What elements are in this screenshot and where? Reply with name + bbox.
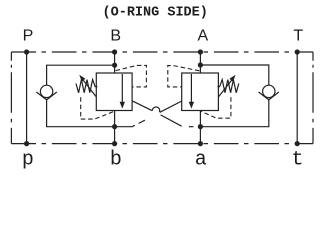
svg-text:T: T [293,28,303,45]
spring drain V2 to a (dashed) [200,97,231,118]
relief valve V1 body [96,73,132,111]
svg-text:P: P [23,28,34,45]
wire C2 to a-line [200,100,268,127]
junction dot b branch [112,124,117,129]
wire P-p vertical [26,52,28,144]
junction dot P top [24,49,29,54]
wire valve V2 down to a [199,111,201,144]
svg-text:A: A [197,28,208,45]
cross wire V1 outlet to a-line (upper leg) [132,101,152,111]
spring of V2 [217,80,238,93]
spring of V1 [76,80,97,93]
enclosure boundary right (dash-dot) [312,52,314,144]
svg-text:b: b [110,149,122,171]
junction dot A top [198,49,203,54]
junction dot b bottom [112,141,117,146]
cross wire dash near a junction [189,126,194,128]
svg-text:(O-RING SIDE): (O-RING SIDE) [103,5,208,20]
cross wire b-line to V2 inlet (stub from b junction) [115,125,135,126]
svg-text:p: p [22,149,34,171]
check valve C1 seat [36,92,56,100]
svg-text:B: B [110,28,121,45]
svg-text:a: a [195,149,207,171]
pilot line B to V1 (dashed) [116,65,147,87]
enclosure boundary bottom (dash-dot) [11,143,313,145]
junction dot a branch [198,124,203,129]
adjustment arrow of V2 spring [218,80,232,97]
check valve C2 ball [263,85,275,97]
junction dot p bottom [24,141,29,146]
check valve C2 seat [259,92,279,100]
wire B down to valve V1 [114,52,116,73]
wire A-dot to check valve C2 [200,65,268,85]
junction dot B top [112,49,117,54]
relief valve V2 body [182,73,219,111]
enclosure boundary left (dash-dot) [10,52,12,144]
crossing hop arc [152,107,159,112]
wire valve V1 down to b [114,111,116,144]
svg-text:t: t [291,149,303,171]
wire A down to valve V2 [199,52,201,73]
cross wire b-line to V2 inlet (upper leg) [160,101,182,112]
check valve C1 ball [40,85,52,97]
relief valve V2 flow arrow [190,74,192,104]
junction dot T top [295,49,300,54]
junction dot t bottom [295,141,300,146]
junction dot A branch [198,62,203,67]
wire T-t vertical [296,52,298,144]
wire B-dot to check valve C1 [47,65,115,85]
spring drain V1 to b (dashed) [81,97,115,119]
enclosure boundary top (dash-dot) [11,51,313,53]
adjustment arrow of V1 spring [83,80,97,97]
junction dot B branch [112,63,117,68]
relief valve V1 flow arrow [121,74,123,104]
pilot line A to V2 (dashed) [168,66,200,87]
wire C1 to b-line [47,100,115,127]
junction dot a bottom [198,141,203,146]
cross wire V1 outlet to a-line (lower leg) [161,115,182,126]
